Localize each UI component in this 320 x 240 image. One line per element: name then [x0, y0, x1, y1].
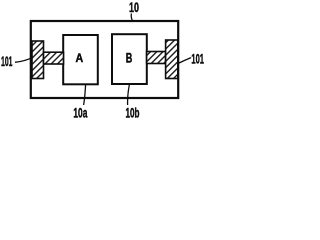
- outer package body 10: [31, 21, 178, 98]
- left electrode 101 vertical bar: [32, 41, 44, 79]
- svg-text:A: A: [75, 51, 83, 65]
- leader line from right 101 to electrode: [178, 58, 191, 64]
- leader line from 10 to package top edge: [130, 14, 133, 21]
- right electrode 101 vertical bar: [166, 40, 178, 79]
- right electrode 101 horizontal bar: [147, 52, 166, 64]
- svg-text:10a: 10a: [73, 105, 87, 120]
- element box B (10b): [112, 34, 147, 84]
- svg-text:10: 10: [129, 0, 139, 15]
- svg-text:101: 101: [1, 54, 13, 69]
- svg-text:B: B: [126, 49, 133, 65]
- svg-text:101: 101: [191, 52, 204, 67]
- leader line from left 101 to electrode: [15, 57, 33, 62]
- left electrode 101 horizontal bar: [44, 52, 64, 64]
- leader line from 10b to box B bottom: [128, 84, 130, 105]
- leader line from 10a to box A bottom: [84, 85, 86, 106]
- element box A (10a): [63, 35, 98, 84]
- svg-text:10b: 10b: [126, 106, 140, 121]
